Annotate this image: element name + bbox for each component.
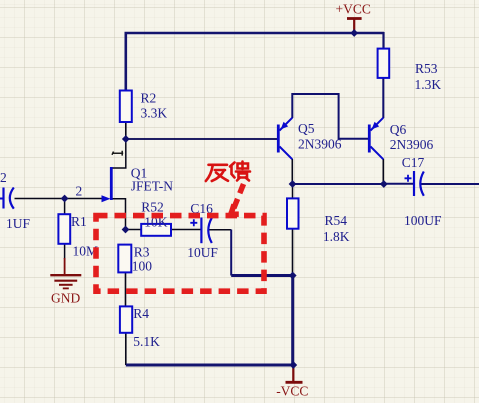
svg-text:R52: R52 bbox=[141, 200, 164, 215]
resistor R54 bbox=[287, 198, 350, 244]
wire R54 bottom stem bbox=[292, 229, 294, 276]
node junction bottom rail / -VCC bbox=[289, 361, 297, 369]
node junction Q6 collector / C17 bbox=[380, 180, 388, 188]
ground GND bbox=[50, 275, 81, 305]
svg-text:R1: R1 bbox=[71, 214, 87, 229]
wire R54 column lower bbox=[291, 276, 294, 366]
svg-text:2N3906: 2N3906 bbox=[298, 137, 342, 152]
svg-text:Q6: Q6 bbox=[390, 122, 407, 137]
transistor Q1 JFET-N bbox=[102, 166, 174, 203]
node junction at input/R1 bbox=[61, 195, 69, 203]
power +VCC bbox=[336, 2, 371, 34]
wire left vertical to R2 bbox=[125, 32, 128, 91]
label 反馈 (feedback) hand-drawn bbox=[206, 162, 250, 182]
resistor R3 bbox=[118, 245, 152, 274]
wire mid rail Q5-Q6 collectors bbox=[293, 183, 384, 185]
svg-text:3.3K: 3.3K bbox=[141, 106, 168, 121]
svg-text:R3: R3 bbox=[134, 245, 150, 260]
wire top rail VCC bbox=[126, 33, 384, 34]
transistor Q6 2N3906 bbox=[369, 118, 433, 160]
wire C16 right bbox=[209, 229, 231, 231]
node junction R2 bottom bbox=[122, 135, 130, 143]
wire Q1 drain bbox=[112, 139, 126, 168]
Q1 pin 1 label bbox=[112, 151, 123, 156]
svg-text:1.3K: 1.3K bbox=[415, 77, 442, 92]
wire R52 to C16 bbox=[171, 229, 201, 231]
svg-text:100UF: 100UF bbox=[404, 213, 442, 228]
wire C17 row left bbox=[384, 183, 414, 185]
wire node to Q5 base bbox=[126, 138, 278, 140]
wire bottom rail bbox=[126, 364, 293, 367]
svg-text:2N3906: 2N3906 bbox=[390, 137, 434, 152]
wire feedback vertical bbox=[230, 230, 232, 276]
wire R54 top stem bbox=[292, 184, 294, 199]
node junction Q5 collector / R54 bbox=[289, 180, 297, 188]
svg-text:5.1K: 5.1K bbox=[133, 334, 160, 349]
node junction Q1 source / R52 / R3 bbox=[122, 226, 130, 234]
wire Q1 source bbox=[112, 199, 126, 230]
resistor R2 bbox=[120, 91, 168, 123]
node junction feedback / R54 bbox=[289, 272, 297, 280]
svg-text:C17: C17 bbox=[402, 155, 425, 170]
resistor R52 bbox=[141, 200, 171, 236]
wire Q6 emitter to R53 bbox=[382, 78, 384, 119]
wire node to R52 bbox=[126, 229, 142, 231]
svg-text:GND: GND bbox=[51, 291, 80, 306]
wire R1 top bbox=[64, 199, 66, 215]
wire input to gate bbox=[15, 198, 103, 200]
wire R1 bottom to GND bbox=[64, 244, 66, 276]
wire Q6 collector bbox=[382, 159, 384, 184]
svg-text:-VCC: -VCC bbox=[276, 384, 308, 399]
feedback highlight dashed box bbox=[96, 216, 264, 292]
svg-text:R53: R53 bbox=[415, 61, 438, 76]
svg-text:R2: R2 bbox=[141, 91, 157, 106]
wire input stub bbox=[0, 198, 4, 200]
capacitor C17 bbox=[402, 155, 442, 228]
node junction +VCC rail bbox=[350, 29, 358, 37]
resistor R4 bbox=[120, 306, 160, 349]
power -VCC bbox=[276, 365, 308, 399]
wire Q5 emitter loop to Q6 base bbox=[292, 94, 368, 139]
svg-text:Q5: Q5 bbox=[298, 121, 315, 136]
wire R3 to R4 bbox=[125, 272, 127, 307]
svg-text:100: 100 bbox=[132, 259, 153, 274]
svg-text:2: 2 bbox=[76, 184, 83, 199]
resistor R53 bbox=[378, 49, 442, 92]
svg-text:1.8K: 1.8K bbox=[323, 229, 350, 244]
transistor Q5 2N3906 bbox=[278, 118, 341, 160]
wire feedback horizontal bbox=[231, 274, 293, 277]
svg-text:R54: R54 bbox=[325, 213, 348, 228]
Q1 pin 2 label bbox=[76, 184, 83, 199]
wire R2 bottom to node bbox=[125, 122, 127, 139]
svg-text:C2: C2 bbox=[0, 170, 7, 185]
svg-text:JFET-N: JFET-N bbox=[131, 179, 174, 194]
wire Q5 collector bbox=[291, 159, 293, 184]
wire right vertical to R53 bbox=[382, 32, 384, 49]
resistor R1 bbox=[58, 214, 98, 259]
capacitor C22 (input, clipped at edge) bbox=[0, 170, 30, 231]
wire C17 row right bbox=[421, 183, 479, 185]
capacitor C16 bbox=[187, 201, 218, 260]
feedback leader arrow bbox=[229, 184, 244, 214]
svg-text:10UF: 10UF bbox=[187, 245, 218, 260]
svg-text:1UF: 1UF bbox=[6, 216, 30, 231]
svg-text:R4: R4 bbox=[133, 306, 149, 321]
svg-text:+VCC: +VCC bbox=[336, 2, 371, 17]
wire R4 bottom bbox=[125, 333, 127, 366]
